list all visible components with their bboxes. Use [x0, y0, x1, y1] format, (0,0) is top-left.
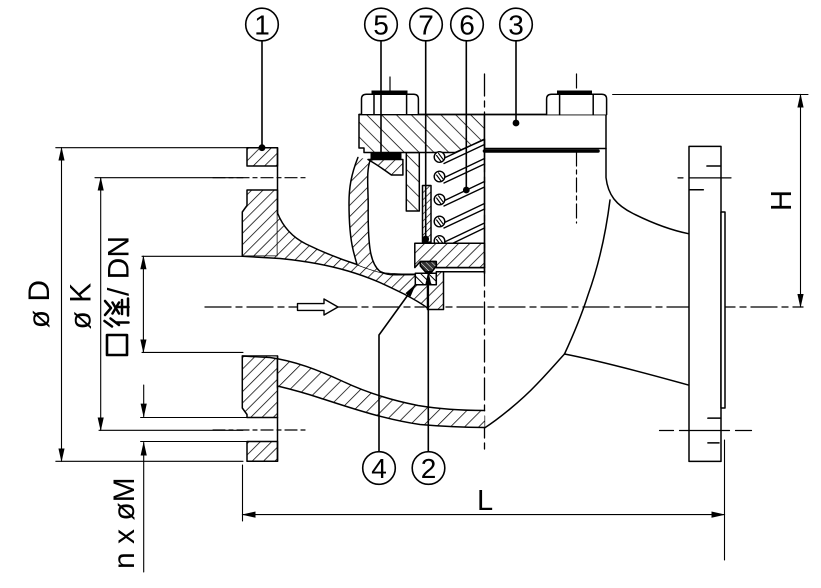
right flange raised face — [721, 212, 725, 408]
dimension: DN extension bottom — [142, 351, 243, 353]
dimension line DN — [142, 256, 144, 352]
balloon 7 — [410, 8, 443, 242]
glyph jing (diameter) — [105, 299, 129, 327]
bonnet skirt — [406, 153, 419, 212]
right flange bolt hole ticks top — [707, 165, 721, 167]
dimension L extension right — [724, 440, 726, 560]
dimension line H — [800, 95, 802, 308]
right flange bolt hole ticks bottom — [708, 417, 721, 419]
balloon 3 — [500, 8, 533, 126]
left flange section: between hole and bore — [242, 190, 277, 256]
right gasket thick line — [485, 149, 599, 153]
disc guide (item 7) — [423, 186, 432, 243]
label L — [477, 485, 493, 517]
inner dome arc visible through outlet — [565, 200, 611, 354]
seat ring — [415, 273, 436, 284]
dimension: oD extension top — [56, 147, 250, 149]
svg-text:ø D: ø D — [23, 280, 56, 328]
dimension H extension top — [613, 94, 808, 96]
svg-text:L: L — [477, 485, 493, 517]
svg-text:/ DN: / DN — [103, 236, 136, 296]
neck inner curve D (dome wall and floor) — [368, 160, 416, 275]
dimension: oD extension bottom — [56, 460, 243, 462]
svg-text:2: 2 — [421, 453, 437, 484]
svg-text:4: 4 — [371, 453, 387, 484]
right flange outline — [689, 146, 721, 461]
left flange section: upper block above bolt hole — [247, 148, 278, 166]
dimension line oK — [100, 178, 102, 431]
bonnet cover unhatched right part — [485, 115, 607, 149]
right flange top bolt hole centerline — [678, 177, 731, 179]
dimension: oK extension bottom — [99, 429, 243, 431]
label DN (rotated, CJK hand-drawn) — [103, 236, 136, 355]
channel top wall line B — [242, 256, 427, 308]
bottom body wall band (sectioned) — [242, 356, 484, 428]
left bolt centerline — [389, 77, 391, 137]
flange bottom bolt hole centerline — [213, 429, 307, 431]
svg-text:3: 3 — [508, 10, 524, 41]
balloon 1 — [246, 8, 279, 151]
dimension L extension left — [242, 465, 244, 521]
label oD — [23, 280, 56, 328]
svg-text:7: 7 — [418, 10, 434, 41]
label oK — [65, 283, 98, 330]
glyph kou (mouth box) — [107, 335, 127, 355]
right body outline from cover to right flange — [606, 149, 689, 234]
bottom outer line — [278, 386, 485, 428]
right bolt B2 — [547, 91, 607, 115]
dimension: oM lower arrow line — [143, 443, 145, 573]
balloon 6 — [451, 8, 484, 193]
svg-text:n x øM: n x øM — [108, 477, 141, 569]
flange right edge — [277, 148, 279, 462]
bottom outline outside view: hump and run to flange — [485, 354, 565, 428]
svg-text:5: 5 — [373, 10, 389, 41]
left flange section: bottom block below bolt hole — [247, 442, 278, 462]
body upper channel wall band (hub fillet to seat ledge) — [242, 213, 427, 310]
svg-text:1: 1 — [254, 10, 270, 41]
bonnet gasket (item 5, black bar) — [371, 153, 402, 160]
left flange section: lower between bore and bolt hole — [242, 356, 277, 418]
svg-text:6: 6 — [459, 10, 475, 41]
flange top bolt hole centerline — [213, 177, 309, 179]
body neck band and dome floor (between curves C/A and D) — [349, 158, 415, 275]
horizontal centerline — [205, 306, 803, 308]
balloon 4 — [363, 285, 416, 485]
seat support lines to the right — [436, 267, 484, 269]
body upper flange lip — [368, 160, 403, 176]
dimension line oD — [61, 148, 63, 462]
oM hole top extension — [141, 417, 247, 419]
label H — [766, 190, 798, 211]
label n x oM — [108, 477, 141, 569]
flow arrow — [298, 299, 339, 315]
section cut edge at centerline — [484, 140, 486, 274]
right bolt centerline — [576, 74, 578, 223]
dimension: oK extension top — [95, 177, 243, 179]
balloon 2 — [412, 272, 445, 484]
svg-text:ø K: ø K — [65, 283, 98, 330]
left bolt B1 — [362, 91, 419, 115]
spring (item 6) coils — [434, 139, 484, 248]
dimension: DN extension top — [142, 255, 243, 257]
svg-text:H: H — [766, 190, 798, 211]
body seat boss — [428, 272, 444, 310]
bonnet cover hatched part — [359, 115, 485, 153]
neck outer curve C — [349, 158, 358, 265]
dimension line L — [243, 514, 725, 516]
oM hole bottom extension — [141, 441, 247, 443]
disc seal ring (item 2, dark) — [420, 262, 436, 272]
right flange bottom bolt hole centerline — [660, 430, 753, 432]
bottom channel inner line — [242, 356, 484, 411]
hub fillet / outer top line A — [278, 213, 416, 274]
dimension: oM upper arrow — [143, 385, 145, 417]
cover top edge — [359, 114, 606, 116]
vertical centerline of bonnet — [484, 74, 486, 450]
disc (item 4) — [415, 243, 485, 267]
balloon 5 — [365, 8, 398, 152]
